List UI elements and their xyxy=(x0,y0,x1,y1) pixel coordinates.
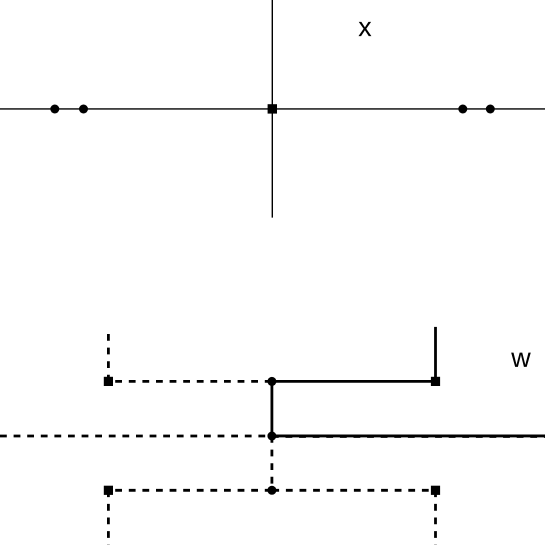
node dot at lower junction xyxy=(267,486,276,495)
w-plane dashed vertical below lower-left square xyxy=(107,490,110,545)
w-plane middle axis: solid segment from middle node to right edge xyxy=(272,435,545,438)
branch point dot at x=b (far right) xyxy=(486,105,495,114)
label w (w-plane) xyxy=(511,353,531,367)
w-plane lower cut: dashed segment from lower-right square to lower node xyxy=(272,489,436,492)
w-plane middle axis: dashed segment from left edge to middle node xyxy=(0,435,272,438)
w-plane dashed vertical above left square xyxy=(107,334,110,381)
x-plane horizontal axis (real axis) xyxy=(0,108,545,110)
w-plane dashed vertical below lower-right square xyxy=(434,490,437,545)
w-plane solid vertical above right square xyxy=(434,327,437,382)
square marker at x-plane origin xyxy=(268,104,277,113)
label x (x-plane) xyxy=(359,22,372,36)
branch point dot at x=a (right) xyxy=(458,105,467,114)
branch point dot at x=-a (left) xyxy=(79,105,88,114)
square marker lower-right (w-plane) xyxy=(431,486,440,495)
w-plane upper cut: dashed segment from left square to center node xyxy=(108,380,272,383)
w-plane dashed vertical between middle node and lower node xyxy=(270,436,273,490)
w-plane solid vertical between upper node and middle node xyxy=(270,381,273,436)
node dot at upper junction xyxy=(267,377,276,386)
square marker upper-right (w-plane) xyxy=(431,377,440,386)
w-plane lower cut: dashed segment from lower-left square to lower node xyxy=(108,489,272,492)
x-plane vertical axis (imaginary axis) xyxy=(271,0,273,218)
node dot at middle junction xyxy=(267,432,276,441)
square marker upper-left (w-plane) xyxy=(104,377,113,386)
w-plane upper cut: solid segment from center node to right square xyxy=(272,380,436,383)
branch point dot at x=-b (far left) xyxy=(50,105,59,114)
square marker lower-left (w-plane) xyxy=(104,486,113,495)
w-plane middle axis: dashed continuation under the solid segment xyxy=(272,435,545,438)
